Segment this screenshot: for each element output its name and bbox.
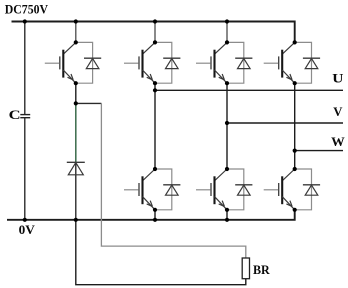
wire: phase U leg lower vertical to 0V	[154, 210, 156, 220]
wire: 0V bottom bus	[7, 210, 295, 220]
junction dot 0V bus / capacitor rail	[23, 218, 27, 222]
junction dot W output tap	[293, 149, 297, 153]
wire: DC+ top bus	[12, 22, 295, 43]
wire: phase V leg lower vertical to 0V	[226, 210, 228, 220]
transistor: chopper IGBT (brake) with freewheel diode	[45, 40, 101, 85]
junction dot U output tap	[153, 88, 157, 92]
wire: brake diode to 0V bus	[75, 162, 77, 220]
wire: chopper drop to BR top (gray run)	[101, 103, 245, 258]
wire: BR bottom return to 0V	[76, 220, 246, 285]
wire: node M down to brake diode (green run)	[75, 103, 77, 162]
wire: output W line	[295, 150, 343, 152]
wire: left DC-link rail lower (below capacitor C)	[24, 118, 26, 220]
wire: phase U leg mid vertical	[154, 83, 156, 169]
svg-text:C: C	[9, 107, 21, 122]
wire: output V line	[227, 122, 343, 124]
wire: leg U stub from DC+ bus	[154, 22, 156, 43]
wire: leg V stub from DC+ bus	[226, 22, 228, 43]
junction dot DC+ bus / leg U	[153, 19, 157, 23]
transistor: IGBT phase U high side with freewheel diode	[124, 40, 180, 85]
wire: chopper leg stub from DC+ bus	[75, 22, 77, 43]
junction dot 0V bus / leg V	[225, 218, 229, 222]
junction dot DC+ bus / capacitor rail	[23, 19, 27, 23]
svg-text:W: W	[331, 134, 345, 149]
junction dot DC+ bus / leg V	[225, 19, 229, 23]
wire: chopper leg emitter to node M	[75, 83, 77, 103]
transistor: IGBT phase V high side with freewheel diode	[196, 40, 252, 85]
transistor: IGBT phase W low side with freewheel diode	[264, 167, 320, 212]
wire: output U line	[155, 89, 343, 91]
junction dot DC+ bus / chopper leg	[74, 19, 78, 23]
wire: phase W leg mid vertical	[294, 83, 296, 169]
svg-text:0V: 0V	[19, 222, 36, 237]
wire: left DC-link rail upper (above capacitor C)	[24, 22, 26, 115]
wire: phase V leg mid vertical	[226, 83, 228, 169]
junction dot node M brake chopper output	[74, 101, 78, 105]
svg-text:DC750V: DC750V	[5, 1, 49, 16]
brake diode cathode bar	[67, 161, 85, 163]
wire: node M horizontal to chopper drop	[76, 102, 102, 104]
junction dot 0V bus / brake branch	[74, 218, 78, 222]
brake diode triangle	[68, 163, 83, 175]
junction dot 0V bus / leg U	[153, 218, 157, 222]
svg-text:U: U	[332, 70, 344, 85]
resistor BR	[242, 258, 249, 279]
capacitor C bottom plate	[20, 117, 30, 119]
wire: phase W leg lower vertical to 0V	[294, 210, 296, 220]
transistor: IGBT phase W high side with freewheel diode	[264, 40, 320, 85]
transistor: IGBT phase U low side with freewheel diode	[124, 167, 180, 212]
svg-text:V: V	[333, 104, 343, 119]
junction dot V output tap	[225, 121, 229, 125]
transistor: IGBT phase V low side with freewheel diode	[196, 167, 252, 212]
svg-text:BR: BR	[253, 262, 270, 277]
capacitor C top plate	[20, 114, 30, 116]
